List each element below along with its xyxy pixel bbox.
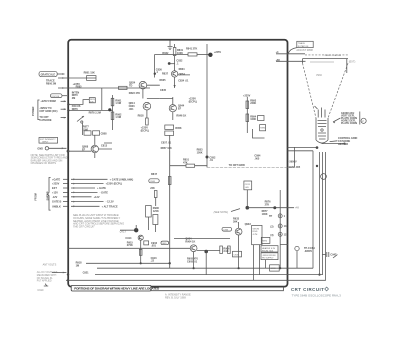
- svg-text:THE CRT CIRCUIT: THE CRT CIRCUIT: [73, 225, 95, 228]
- svg-text:POWER: POWER: [32, 106, 35, 116]
- transistor Q834: [171, 68, 190, 88]
- svg-text:EF: EF: [82, 148, 86, 151]
- svg-text:100K: 100K: [262, 213, 268, 216]
- svg-text:Q834: Q834: [179, 73, 186, 76]
- svg-text:27K: 27K: [265, 203, 270, 206]
- svg-text:C941 .005: C941 .005: [289, 166, 301, 169]
- svg-text:.001: .001: [151, 245, 156, 248]
- bracket power connections: [32, 100, 40, 120]
- wire grid feed: [288, 146, 319, 149]
- subtitle: [292, 293, 342, 297]
- svg-text:GRATICULE: GRATICULE: [41, 73, 56, 76]
- main chassis frame (heavy line): [68, 40, 287, 287]
- svg-text:1.5M: 1.5M: [115, 102, 121, 105]
- svg-text:.01: .01: [209, 159, 213, 162]
- svg-text:50K: 50K: [90, 102, 94, 104]
- svg-text:R885: R885: [76, 85, 83, 88]
- circled ref: [361, 118, 366, 123]
- svg-text:(2): (2): [270, 225, 273, 228]
- svg-text:+48: +48: [295, 207, 300, 210]
- label C913: [151, 257, 158, 263]
- signal row ext horiz: [52, 187, 68, 190]
- svg-text:R818: R818: [138, 114, 145, 117]
- wire from dot to right: [247, 207, 299, 210]
- svg-text:-3950V: -3950V: [289, 161, 297, 164]
- svg-text:C835: C835: [160, 89, 167, 92]
- svg-text:120K: 120K: [153, 210, 159, 213]
- svg-text:R832: R832: [162, 52, 169, 55]
- svg-text:+12V: +12V: [94, 196, 100, 199]
- wire geometry: [276, 59, 306, 62]
- note text parts list: [31, 154, 68, 165]
- wire intensity tap: [67, 100, 89, 106]
- svg-text:220K: 220K: [250, 102, 256, 105]
- svg-text:+ GATE: + GATE: [97, 187, 106, 190]
- svg-text:CATHODE: CATHODE: [39, 119, 52, 122]
- svg-text:ADJUST R898: ADJUST R898: [296, 49, 313, 52]
- wire page bottom: [151, 287, 284, 291]
- riser unblanking to grid: [294, 147, 296, 167]
- box trace rotation: [296, 41, 313, 52]
- wire to graticule: [57, 73, 64, 75]
- svg-text:C857 .01: C857 .01: [161, 141, 172, 144]
- svg-text:GND: GND: [162, 243, 167, 245]
- label R835: [160, 79, 167, 92]
- svg-text:CRT GRID (DC): CRT GRID (DC): [39, 110, 57, 113]
- svg-text:GEOM: GEOM: [253, 228, 260, 230]
- labels high voltage: [289, 161, 301, 170]
- svg-text:C905 .01: C905 .01: [187, 261, 198, 264]
- test point TP: [269, 214, 282, 218]
- labels grid cathode: [330, 137, 358, 146]
- svg-text:R895: R895: [260, 128, 266, 130]
- svg-text:GATE B: GATE B: [52, 201, 61, 204]
- svg-text:R837: R837: [162, 73, 169, 76]
- svg-text:(EXT): (EXT): [349, 61, 356, 64]
- capacitor C894: [254, 116, 264, 161]
- label +225V dcpl: [189, 98, 198, 104]
- svg-text:PORTIONS OF DIAGRAM WITHIN HEA: PORTIONS OF DIAGRAM WITHIN HEAVY LINE AR…: [74, 287, 160, 291]
- svg-text:+225V (DCPL): +225V (DCPL): [106, 183, 123, 186]
- crt screen face: [303, 59, 356, 73]
- box R895: [260, 125, 266, 131]
- wire lower bus a: [76, 261, 171, 274]
- svg-text:R800 2M: R800 2M: [46, 83, 56, 86]
- svg-text:Q933: Q933: [245, 223, 252, 226]
- wire emitter: [197, 250, 220, 254]
- row +225V unblanking: [71, 183, 122, 186]
- svg-text:NO SIGNAL IN-: NO SIGNAL IN-: [37, 277, 53, 280]
- resistor divider chain right: [243, 94, 257, 133]
- junction dot Q913: [120, 225, 138, 232]
- svg-text:+225V: +225V: [243, 94, 251, 97]
- svg-text:FOCUS: FOCUS: [52, 96, 60, 98]
- wire anode: [276, 51, 305, 54]
- wire heater return: [266, 244, 288, 268]
- pin terminal 2: [270, 224, 282, 228]
- svg-text:INNER COATING: INNER COATING: [325, 54, 342, 57]
- note block italic: [72, 214, 124, 228]
- label intensity control: [72, 92, 80, 100]
- transistor Q844: [160, 97, 185, 120]
- svg-text:+225V: +225V: [214, 51, 222, 54]
- unblanking vertical wire: [206, 44, 208, 167]
- resistor R801: [84, 71, 96, 80]
- row -12: [71, 196, 100, 199]
- vertical bus center: [169, 151, 171, 268]
- svg-text:ANT VOLTS: ANT VOLTS: [43, 264, 57, 267]
- junction dot unblanking: [206, 156, 216, 163]
- see note label: [214, 209, 240, 214]
- svg-text:R857 10K: R857 10K: [161, 147, 172, 150]
- svg-text:4.7M: 4.7M: [253, 234, 258, 236]
- transistor Q814: [129, 99, 160, 119]
- svg-text:(DCPL): (DCPL): [189, 101, 198, 104]
- transistor Q824: [129, 81, 160, 98]
- labels left of bus: [149, 173, 159, 190]
- connector deflection plate: [316, 165, 327, 180]
- svg-text:2M: 2M: [72, 97, 75, 100]
- svg-text:TO CRT GRID: TO CRT GRID: [229, 164, 245, 167]
- svg-text:+12V: +12V: [52, 191, 58, 194]
- wire base feed: [162, 64, 175, 76]
- svg-text:V930: V930: [316, 74, 322, 77]
- svg-text:.001: .001: [129, 108, 134, 111]
- signal row +12V: [52, 191, 68, 194]
- svg-text:HV SUPPLY: HV SUPPLY: [262, 258, 274, 260]
- svg-text:R858: R858: [175, 127, 182, 130]
- pill cal: [161, 241, 169, 245]
- svg-text:C874: C874: [245, 184, 251, 186]
- wire divider output: [253, 129, 265, 138]
- wire from frame to trace rot: [288, 48, 297, 54]
- junction dot mid right: [246, 206, 250, 210]
- label +225V: [73, 83, 81, 86]
- svg-text:PLATE CONN: PLATE CONN: [341, 122, 357, 125]
- resistor R885 series: [119, 86, 127, 89]
- junction dot cal: [154, 68, 163, 75]
- svg-text:REV. B JULY 1969: REV. B JULY 1969: [165, 297, 186, 300]
- signal row +gate: [52, 178, 68, 181]
- junction dot on frame lower: [67, 279, 69, 281]
- potentiometer wiper astig: [77, 116, 84, 135]
- row gate b: [71, 201, 114, 204]
- svg-text:C834 .01: C834 .01: [178, 79, 189, 82]
- labels deflection plates: [333, 112, 360, 125]
- resistor chain R861: [111, 95, 122, 130]
- box heater winding: [261, 246, 278, 253]
- wire q904 collector down: [194, 250, 207, 275]
- svg-text:1M: 1M: [76, 264, 79, 267]
- svg-text:.22: .22: [151, 260, 155, 263]
- label R878: [89, 111, 101, 114]
- box C874: [244, 181, 252, 206]
- box lower pin: [270, 265, 280, 271]
- label R853: [197, 149, 204, 155]
- test point junction: [208, 51, 221, 57]
- graticule lamp label B801: [39, 71, 57, 76]
- box external intensity input: [39, 138, 58, 144]
- wire blanking bus: [68, 247, 190, 249]
- transistor Q913: [125, 235, 143, 247]
- svg-text:R823 47K: R823 47K: [129, 92, 140, 95]
- box C906: [233, 251, 242, 257]
- transistor Q808: [82, 135, 112, 158]
- resistor R907: [228, 246, 231, 254]
- wire focus tap: [67, 88, 112, 112]
- pill gnd 2: [222, 227, 232, 231]
- svg-text:-3950V: -3950V: [304, 250, 312, 253]
- svg-text:3.9K: 3.9K: [223, 250, 228, 253]
- wire +225V graticule feed: [58, 77, 96, 79]
- svg-text:EF: EF: [178, 108, 182, 111]
- resistor R906: [220, 246, 230, 254]
- svg-text:R846 1K: R846 1K: [176, 115, 186, 118]
- svg-text:R904 1K: R904 1K: [185, 240, 195, 243]
- svg-text:FROM: FROM: [34, 193, 37, 200]
- svg-text:UNBLK: UNBLK: [52, 205, 61, 208]
- neck pin wire deflection d: [66, 152, 326, 280]
- signal row +225V: [52, 183, 68, 186]
- unblanking row +gate: [71, 178, 133, 181]
- crt gun electrodes: [318, 121, 327, 140]
- svg-text:ROTATION: ROTATION: [298, 45, 309, 48]
- tall box geometry adjust: [252, 225, 262, 280]
- pin terminal 3: [270, 232, 282, 237]
- svg-text:TD: TD: [129, 84, 133, 87]
- resistor R916: [139, 240, 148, 263]
- row unblank cef: [71, 205, 118, 208]
- wire dc voltage ref: [52, 272, 66, 274]
- test point anode: [295, 246, 315, 268]
- junction dot on frame: [67, 273, 69, 275]
- svg-text:R801 15K: R801 15K: [84, 71, 95, 74]
- svg-text:1.5M: 1.5M: [115, 116, 121, 119]
- transistor Q933: [233, 218, 251, 269]
- svg-text:INPUT: INPUT: [42, 142, 49, 144]
- svg-text:-12V: -12V: [52, 196, 58, 199]
- resistor R846: [176, 115, 186, 118]
- svg-text:C914: C914: [125, 237, 132, 240]
- svg-text:TP: TP: [269, 215, 273, 218]
- label pin numbers: [284, 215, 287, 236]
- resistor R849: [154, 191, 157, 207]
- signal row unblank: [52, 205, 68, 208]
- box R875: [89, 98, 96, 104]
- svg-text:+ ALT TRACE: + ALT TRACE: [102, 205, 118, 208]
- svg-text:100K: 100K: [250, 118, 256, 121]
- wire cathode feed: [288, 150, 314, 152]
- label +225V from supply: [40, 100, 66, 103]
- bottom note all dc volts: [43, 264, 57, 267]
- label C903: [151, 242, 158, 248]
- box R896: [261, 237, 270, 243]
- row +12: [71, 192, 108, 195]
- resistor on bus: [168, 177, 171, 185]
- svg-text:R896: R896: [262, 241, 268, 243]
- signal row -12V: [52, 196, 68, 199]
- resistor R818: [138, 114, 150, 132]
- labels under Q904: [187, 258, 198, 264]
- svg-text:MEASURED WITH: MEASURED WITH: [37, 274, 57, 277]
- svg-text:HEATER 6.3V: HEATER 6.3V: [262, 247, 276, 250]
- vertical wire crt bias: [279, 190, 281, 268]
- title CRT CIRCUIT: [291, 287, 329, 292]
- note voltages measured: [37, 271, 58, 286]
- label focus control: [72, 105, 81, 111]
- resistor boxes row: [84, 131, 107, 136]
- svg-text:C808: C808: [101, 132, 108, 135]
- crt aquadag coating: [305, 54, 349, 57]
- svg-text:(3): (3): [270, 234, 273, 237]
- connector J895: [37, 147, 66, 151]
- svg-text:EXT: EXT: [52, 187, 57, 190]
- labels R876: [265, 201, 272, 207]
- box vertical amp: [146, 206, 160, 218]
- svg-text:(DCPL): (DCPL): [141, 129, 150, 132]
- svg-text:FROM T601: FROM T601: [262, 250, 274, 252]
- unblanking wire to CRT grid: [207, 164, 295, 167]
- svg-text:R841 27K: R841 27K: [186, 47, 197, 50]
- resistor R831: [173, 44, 183, 71]
- pill label focus: [50, 94, 67, 98]
- label Q913: [120, 231, 127, 234]
- neck pin wire deflection a: [312, 151, 314, 268]
- box cathode supply: [261, 253, 278, 260]
- svg-text:R835: R835: [160, 79, 167, 82]
- label trace rotation: [46, 80, 56, 86]
- capacitor C834: [178, 79, 189, 82]
- label R877: [83, 126, 90, 132]
- label to CRT cathode: [39, 116, 66, 122]
- svg-text:Q913: Q913: [120, 231, 127, 234]
- resistor R823: [129, 92, 140, 95]
- wire lower bus b: [97, 267, 313, 269]
- boxes on bus: [161, 125, 182, 151]
- wire driver collector bus: [174, 237, 230, 239]
- emitter arrow Q834: [174, 85, 176, 88]
- junction dot bias: [262, 206, 277, 216]
- svg-text:22K: 22K: [150, 187, 155, 190]
- svg-text:C921: C921: [83, 272, 90, 275]
- svg-text:CHANGES OF PARTS: CHANGES OF PARTS: [31, 162, 57, 165]
- junction dot on frame mid: [67, 150, 91, 153]
- neck pin wire deflection c: [95, 152, 323, 275]
- svg-text:GND: GND: [37, 147, 43, 150]
- label -3950V to CRT grid: [39, 107, 66, 113]
- svg-text:PUT APPLIED: PUT APPLIED: [37, 280, 52, 283]
- svg-text:- 12.2V: - 12.2V: [106, 201, 114, 204]
- capacitor C947: [322, 252, 337, 258]
- revision note: [165, 293, 191, 299]
- neck pin wire deflection b: [318, 152, 320, 276]
- svg-text:+ GATE (UNBLANK): + GATE (UNBLANK): [110, 178, 134, 181]
- ground symbol at top rail: [168, 41, 173, 50]
- svg-text:TRACE: TRACE: [298, 42, 306, 45]
- svg-text:R878 2.2M: R878 2.2M: [89, 111, 101, 114]
- deflection plates: [315, 106, 326, 118]
- svg-text:C933: C933: [223, 229, 229, 231]
- svg-text:TYPE 564B OSCILLOSCOPE RM-L3: TYPE 564B OSCILLOSCOPE RM-L3: [292, 293, 342, 297]
- wire R832 feed: [155, 52, 188, 78]
- title bar: [71, 285, 160, 291]
- svg-text:R834: R834: [179, 68, 186, 71]
- label C832: [176, 60, 183, 66]
- svg-text:39K: 39K: [233, 220, 238, 223]
- label C910: [37, 289, 44, 292]
- svg-text:+225V FROM: +225V FROM: [40, 100, 55, 103]
- svg-text:R847: R847: [151, 173, 158, 176]
- svg-text:CRT CIRCUIT: CRT CIRCUIT: [291, 287, 324, 292]
- svg-text:- GATE: - GATE: [100, 192, 109, 195]
- wire astigmatism bus: [58, 85, 150, 89]
- svg-text:(SEE NOTE): (SEE NOTE): [214, 211, 228, 214]
- resistor R841: [186, 47, 210, 56]
- svg-text:150K: 150K: [197, 151, 203, 154]
- svg-text:270K: 270K: [127, 244, 133, 247]
- svg-text:+GATE: +GATE: [52, 178, 61, 181]
- svg-text:+225V: +225V: [52, 183, 60, 186]
- svg-text:C910: C910: [37, 289, 44, 292]
- svg-text:C813: C813: [101, 144, 108, 147]
- row ext: [71, 187, 106, 190]
- box lower: [148, 215, 158, 233]
- crt funnel V930: [303, 63, 349, 143]
- signal row +gate B: [52, 201, 68, 204]
- bracket from sweep: [34, 178, 50, 211]
- transistor Q904: [185, 238, 197, 252]
- svg-text:C846: C846: [150, 181, 156, 183]
- wire heater top: [322, 143, 346, 145]
- svg-text:R941: R941: [253, 231, 259, 233]
- svg-text:.005: .005: [254, 157, 259, 160]
- svg-text:SWEEP: SWEEP: [46, 191, 49, 200]
- resistor R851 horizontal: [170, 159, 207, 168]
- junction dot base Q834: [168, 62, 171, 65]
